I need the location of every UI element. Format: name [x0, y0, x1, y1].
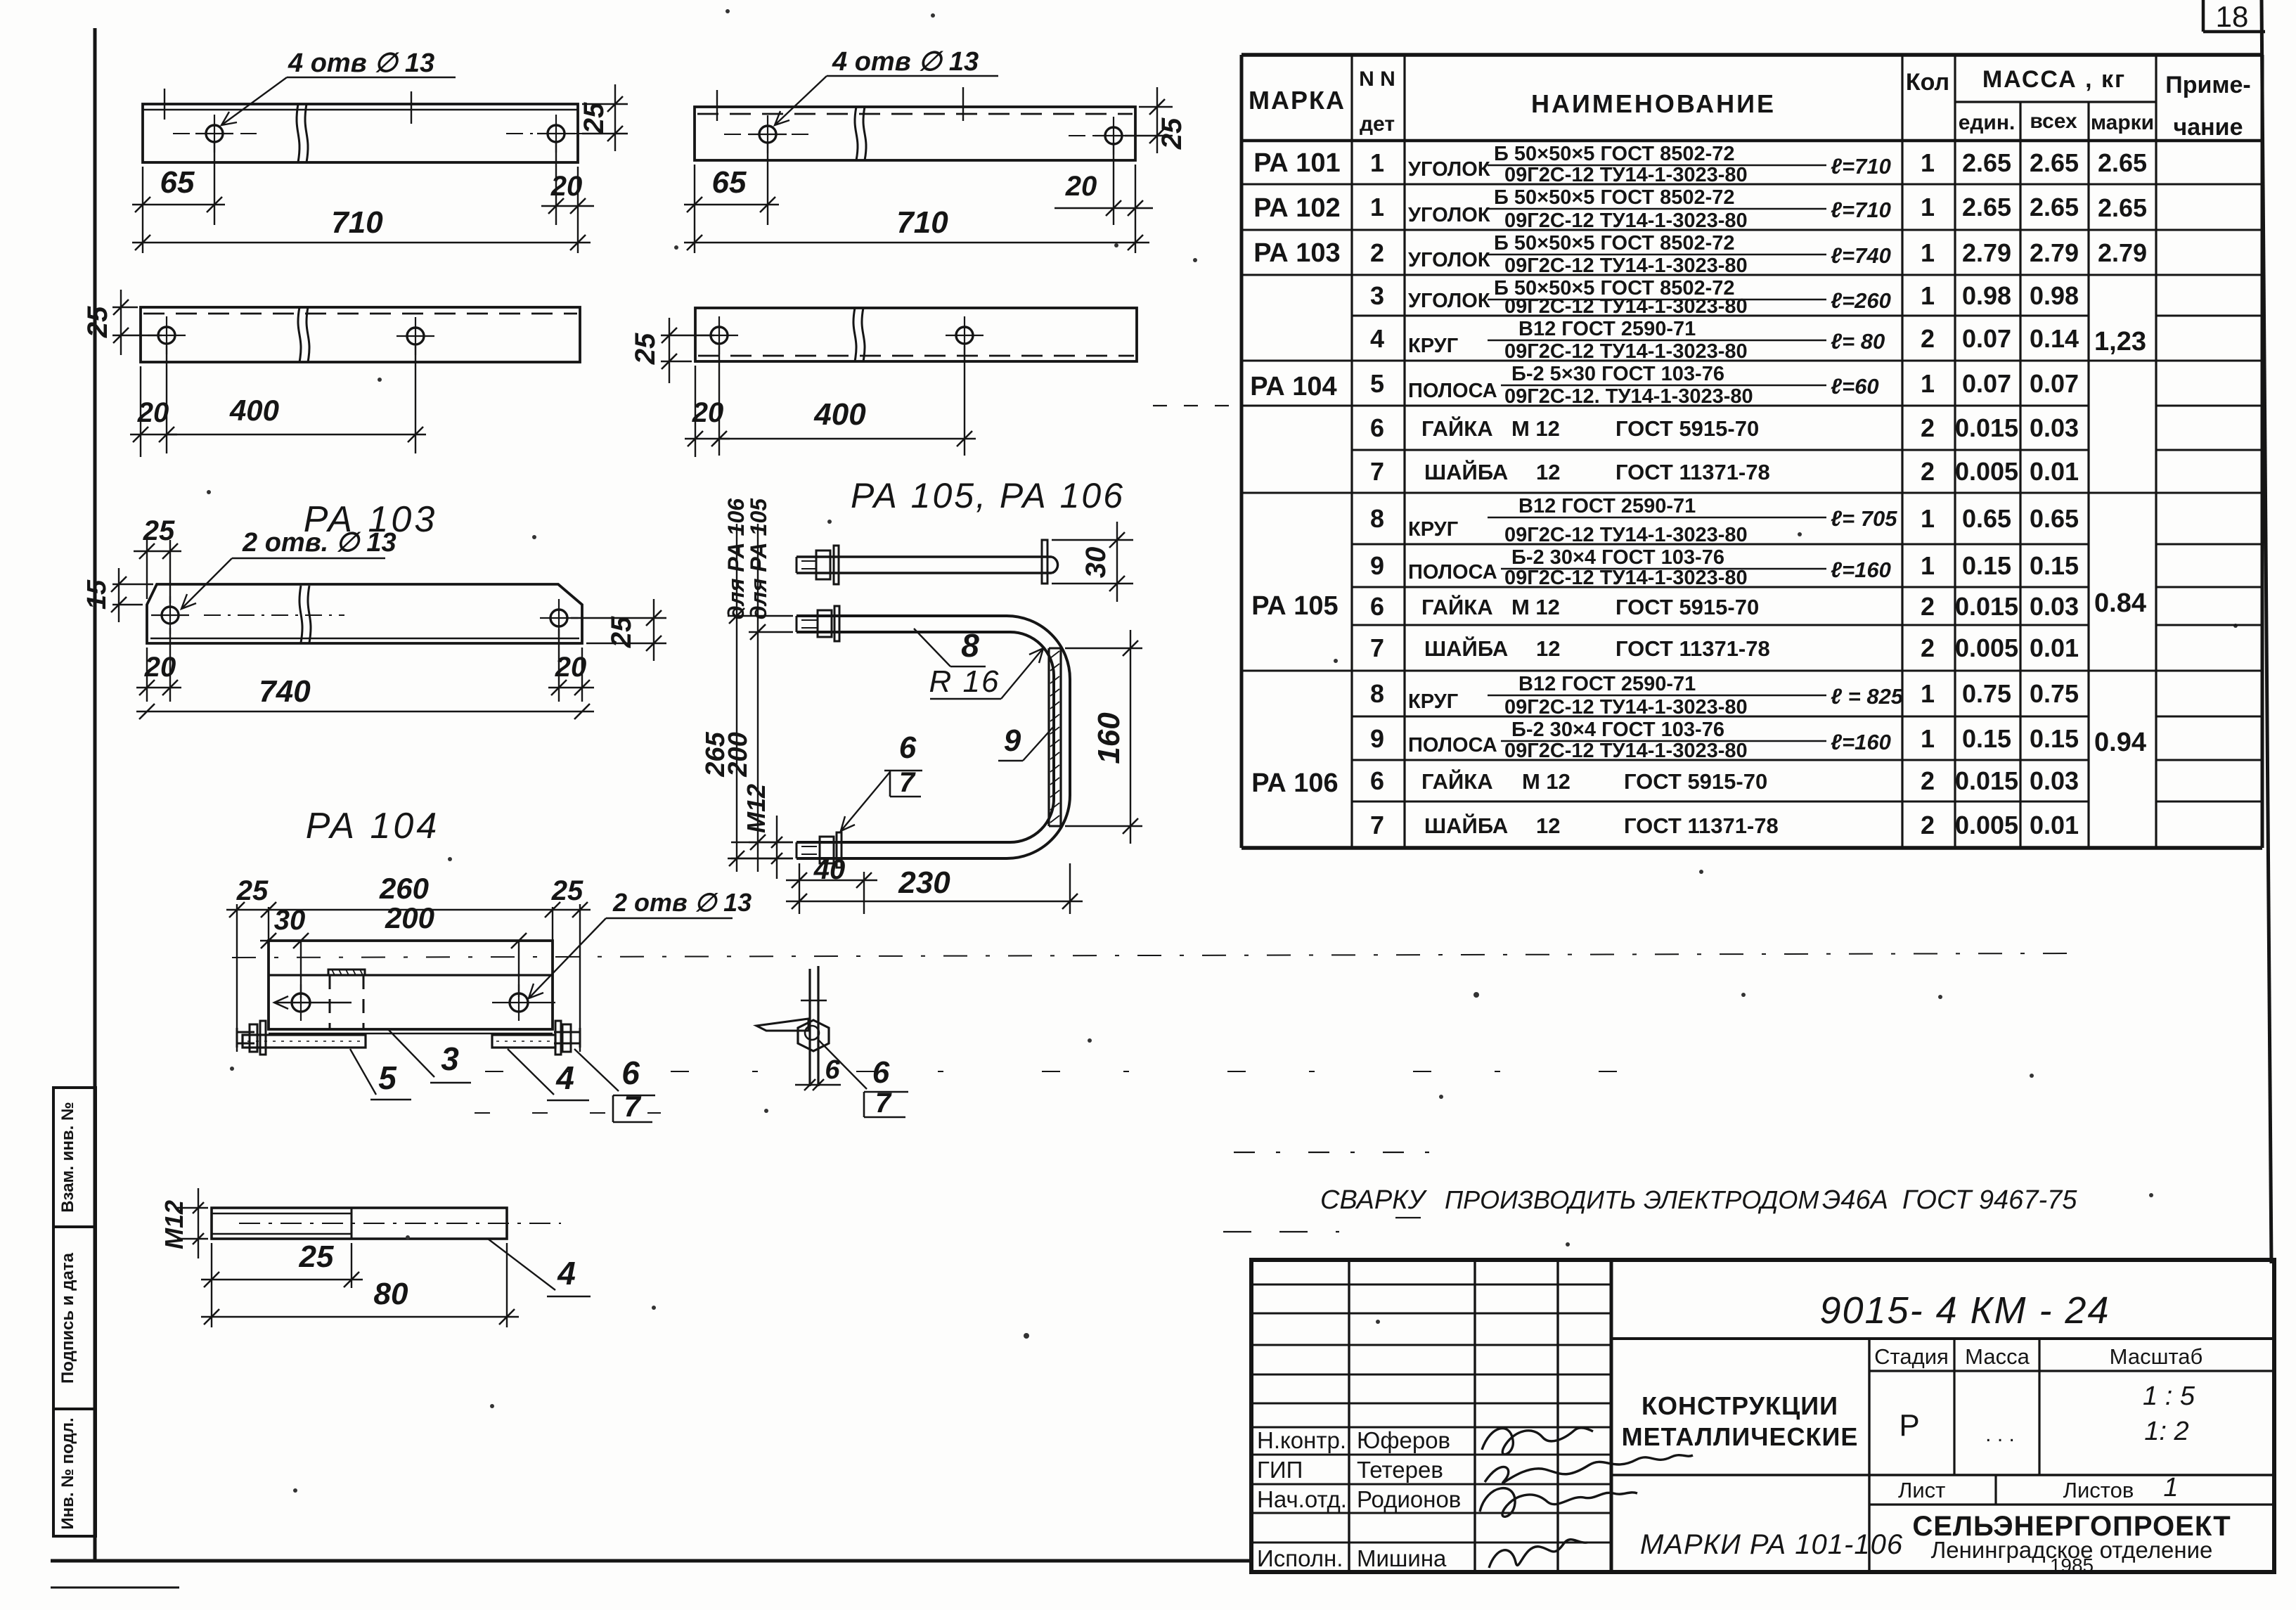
- РА101 hole centrelines: [173, 133, 598, 134]
- svg-text:0.07: 0.07: [2030, 369, 2079, 398]
- view G leader 6 over boxed 7: [818, 1040, 908, 1119]
- dimension M12 (rod diameter): [731, 784, 793, 879]
- svg-text:5: 5: [1370, 369, 1384, 398]
- U-bolt rod item 8 bent: [796, 616, 1070, 858]
- svg-text:1: 1: [1921, 504, 1935, 533]
- svg-text:Б 50×50×5 ГОСТ 8502-72: Б 50×50×5 ГОСТ 8502-72: [1494, 186, 1735, 209]
- svg-text:0.07: 0.07: [1962, 324, 2011, 353]
- svg-text:2.79: 2.79: [1962, 238, 2011, 267]
- svg-text:Листов: Листов: [2063, 1478, 2134, 1502]
- svg-text:Приме-: Приме-: [2165, 72, 2251, 98]
- svg-text:6: 6: [1370, 592, 1384, 621]
- svg-text:6: 6: [899, 730, 917, 765]
- svg-text:2.79: 2.79: [2030, 238, 2079, 267]
- svg-text:ШАЙБА: ШАЙБА: [1424, 813, 1508, 838]
- dimension 20 right (РА103): [548, 629, 594, 702]
- РА102 top edge ticks: [717, 87, 963, 121]
- hole D2: [946, 316, 983, 354]
- svg-text:для РА 105: для РА 105: [746, 498, 771, 619]
- svg-text:200: 200: [723, 732, 753, 777]
- svg-text:ℓ=710: ℓ=710: [1831, 154, 1891, 179]
- РА104 leader 5: [350, 1049, 411, 1100]
- svg-text:ГОСТ 5915-70: ГОСТ 5915-70: [1615, 416, 1759, 441]
- svg-text:Кол: Кол: [1906, 69, 1949, 96]
- svg-text:710: 710: [331, 205, 383, 240]
- svg-text:20: 20: [550, 171, 583, 202]
- label РА 103: [304, 499, 438, 540]
- scan dash artifact 2: [475, 1112, 661, 1114]
- svg-text:12: 12: [1536, 460, 1560, 484]
- sheet frame bottom border: [51, 1559, 1253, 1563]
- washer bar (item 8 right end): [1042, 540, 1047, 584]
- svg-text:1: 1: [1921, 238, 1935, 267]
- РА104 welded tab: [328, 970, 365, 975]
- РА103 hole 1: [151, 596, 189, 634]
- svg-text:ℓ= 705: ℓ= 705: [1831, 506, 1897, 531]
- svg-text:15: 15: [82, 579, 112, 610]
- svg-text:Исполн.: Исполн.: [1257, 1545, 1343, 1571]
- scan dash artifact 5: [1153, 405, 1239, 406]
- svg-text:30: 30: [274, 905, 306, 936]
- svg-text:КОНСТРУКЦИИ: КОНСТРУКЦИИ: [1642, 1391, 1838, 1420]
- РА104 hidden plate edges: [330, 975, 363, 1029]
- U-bolt leader 9: [998, 723, 1055, 761]
- svg-text:Лист: Лист: [1898, 1478, 1945, 1502]
- svg-text:18: 18: [2216, 0, 2249, 33]
- U-bolt bottom arm nut and washer: [801, 832, 841, 868]
- svg-text:2: 2: [1921, 811, 1935, 839]
- svg-text:2.65: 2.65: [2030, 193, 2079, 221]
- svg-text:0.01: 0.01: [2030, 457, 2079, 486]
- svg-text:Мишина: Мишина: [1357, 1545, 1447, 1571]
- svg-text:0.65: 0.65: [2030, 504, 2079, 533]
- svg-text:1: 1: [1921, 724, 1935, 753]
- svg-text:1: 1: [1921, 679, 1935, 708]
- svg-text:Р: Р: [1899, 1408, 1919, 1443]
- РА101 top edge ticks: [165, 89, 411, 124]
- dimension 20 (view C): [130, 346, 177, 457]
- svg-text:2.65: 2.65: [1962, 193, 2011, 221]
- svg-text:65: 65: [160, 165, 195, 200]
- svg-text:1: 1: [2163, 1473, 2178, 1502]
- title block stage value: [1899, 1408, 2015, 1446]
- svg-text:РА 102: РА 102: [1253, 193, 1340, 223]
- U-bolt leader 8: [914, 627, 986, 666]
- svg-text:65: 65: [712, 165, 747, 200]
- dimension 40 (U-bolt): [786, 854, 877, 914]
- svg-text:ЭЛЕКТРОДОМ: ЭЛЕКТРОДОМ: [1644, 1185, 1819, 1214]
- svg-text:09Г2С-12 ТУ14-1-3023-80: 09Г2С-12 ТУ14-1-3023-80: [1504, 210, 1748, 232]
- svg-text:Э46А: Э46А: [1822, 1185, 1888, 1215]
- svg-text:М 12: М 12: [1522, 769, 1571, 794]
- U-bolt leader 6 over boxed 7: [841, 730, 922, 831]
- svg-text:20: 20: [137, 397, 169, 428]
- dimension 25 (РА103 right): [571, 599, 666, 661]
- svg-text:40: 40: [813, 854, 846, 885]
- label РА 104: [306, 806, 440, 846]
- stud item 8 straight (РА106): [796, 546, 1058, 584]
- svg-text:ШАЙБА: ШАЙБА: [1424, 636, 1508, 661]
- dimension 30 (washer width): [1052, 522, 1133, 602]
- svg-text:0.005: 0.005: [1955, 811, 2018, 839]
- svg-text:3: 3: [1370, 281, 1384, 310]
- hole D1: [700, 316, 738, 354]
- svg-text:ПОЛОСА: ПОЛОСА: [1408, 561, 1497, 584]
- РА102 plate outline: [695, 107, 1135, 160]
- svg-text:6: 6: [1370, 413, 1384, 442]
- svg-text:30: 30: [1081, 547, 1111, 579]
- svg-text:230: 230: [898, 865, 950, 900]
- svg-text:РА 103: РА 103: [1253, 238, 1340, 268]
- svg-text:МАССА , кг: МАССА , кг: [1982, 66, 2126, 93]
- svg-text:0.015: 0.015: [1955, 592, 2018, 621]
- svg-text:ГОСТ 9467-75: ГОСТ 9467-75: [1902, 1185, 2077, 1215]
- title block grid: [1251, 1260, 2274, 1572]
- svg-text:Стадия: Стадия: [1874, 1344, 1949, 1369]
- svg-text:25: 25: [236, 875, 269, 906]
- svg-text:Б 50×50×5 ГОСТ 8502-72: Б 50×50×5 ГОСТ 8502-72: [1494, 143, 1735, 165]
- svg-text:09Г2С-12 ТУ14-1-3023-80: 09Г2С-12 ТУ14-1-3023-80: [1504, 524, 1748, 546]
- svg-text:КРУГ: КРУГ: [1408, 690, 1458, 713]
- svg-text:0.01: 0.01: [2030, 811, 2079, 839]
- dimension 710 (РА101): [132, 205, 591, 250]
- stamp box Подпись и дата: [53, 1227, 96, 1409]
- svg-text:МАРКА: МАРКА: [1249, 86, 1346, 115]
- svg-text:7: 7: [875, 1088, 892, 1119]
- dimension 25 (view C): [82, 290, 162, 355]
- title block name cell: [1611, 1339, 1869, 1572]
- svg-text:09Г2С-12 ТУ14-1-3023-80: 09Г2С-12 ТУ14-1-3023-80: [1504, 340, 1748, 363]
- svg-text:ПРОИЗВОДИТЬ: ПРОИЗВОДИТЬ: [1445, 1185, 1636, 1214]
- U-bolt leader R16: [929, 648, 1043, 699]
- sheet frame right border: [2262, 0, 2271, 1263]
- svg-text:1 : 5: 1 : 5: [2143, 1382, 2195, 1411]
- svg-text:Тетерев: Тетерев: [1357, 1457, 1443, 1483]
- svg-text:4: 4: [557, 1255, 576, 1292]
- svg-text:25: 25: [606, 616, 637, 648]
- U-bolt top arm nut and washer: [801, 606, 839, 641]
- svg-text:РА 104: РА 104: [1250, 372, 1336, 401]
- svg-text:0.94: 0.94: [2094, 728, 2146, 757]
- svg-text:0.65: 0.65: [1962, 504, 2011, 533]
- title block sheet row: [1869, 1473, 2274, 1505]
- svg-text:ГОСТ 5915-70: ГОСТ 5915-70: [1615, 595, 1759, 619]
- РА104 leader 6 over boxed 7: [574, 1049, 655, 1123]
- svg-text:25: 25: [551, 875, 583, 906]
- svg-text:3: 3: [441, 1041, 459, 1077]
- svg-text:0.15: 0.15: [1962, 724, 2011, 753]
- svg-text:0.15: 0.15: [1962, 551, 2011, 580]
- РА102 leader 4 отв ⌀13: [775, 47, 998, 125]
- dimension 25 (РА102): [1125, 87, 1187, 153]
- svg-text:2.79: 2.79: [2098, 238, 2147, 267]
- svg-text:400: 400: [813, 397, 866, 432]
- svg-text:4 отв ∅ 13: 4 отв ∅ 13: [288, 49, 434, 78]
- svg-text:ℓ = 825: ℓ = 825: [1831, 684, 1904, 709]
- svg-text:1: 2: 1: 2: [2144, 1417, 2188, 1446]
- svg-text:МАРКИ РА 101-106: МАРКИ РА 101-106: [1640, 1529, 1903, 1560]
- svg-text:7: 7: [1370, 811, 1384, 839]
- svg-text:КРУГ: КРУГ: [1408, 335, 1458, 357]
- svg-text:Нач.отд.: Нач.отд.: [1257, 1486, 1347, 1512]
- svg-text:2.65: 2.65: [1962, 148, 2011, 177]
- dimension 20 (РА102): [1055, 142, 1153, 253]
- svg-text:20: 20: [555, 652, 587, 683]
- svg-text:7: 7: [1370, 633, 1384, 662]
- svg-text:М12: М12: [160, 1200, 188, 1249]
- svg-text:всех: всех: [2030, 110, 2077, 133]
- svg-text:0.98: 0.98: [1962, 281, 2011, 310]
- weld note: [1320, 1185, 2077, 1218]
- svg-text:един.: един.: [1959, 111, 2016, 134]
- svg-text:0.75: 0.75: [2030, 679, 2079, 708]
- svg-text:6: 6: [872, 1055, 890, 1090]
- stud centreline: [239, 1223, 561, 1224]
- svg-text:0.005: 0.005: [1955, 457, 2018, 486]
- svg-text:ГОСТ 5915-70: ГОСТ 5915-70: [1624, 769, 1767, 794]
- dimension 740 (РА103): [136, 674, 594, 719]
- dimension 20 (РА101): [541, 141, 594, 253]
- РА102 hidden fold line: [697, 113, 1133, 115]
- svg-text:М12: М12: [742, 784, 770, 833]
- svg-text:УГОЛОК: УГОЛОК: [1408, 158, 1490, 181]
- title block organisation: [1912, 1511, 2231, 1576]
- svg-text:Б-2 30×4 ГОСТ 103-76: Б-2 30×4 ГОСТ 103-76: [1511, 546, 1724, 569]
- svg-text:160: 160: [1092, 712, 1126, 764]
- dimension 710 (РА102): [684, 205, 1149, 250]
- hole C1: [148, 316, 186, 354]
- svg-text:2: 2: [1921, 324, 1935, 353]
- svg-text:1,23: 1,23: [2094, 327, 2146, 356]
- strip hidden line (view C): [143, 313, 577, 315]
- svg-text:710: 710: [896, 205, 948, 240]
- svg-text:УГОЛОК: УГОЛОК: [1408, 204, 1490, 226]
- svg-text:Б-2 30×4 ГОСТ 103-76: Б-2 30×4 ГОСТ 103-76: [1511, 719, 1724, 741]
- svg-text:260: 260: [379, 872, 429, 905]
- РА103 hole1 centreline: [204, 614, 344, 616]
- svg-text:Подпись и дата: Подпись и дата: [58, 1252, 77, 1384]
- hole C2: [396, 317, 434, 355]
- svg-text:ШАЙБА: ШАЙБА: [1424, 459, 1508, 484]
- svg-text:0.15: 0.15: [2030, 551, 2079, 580]
- svg-text:80: 80: [374, 1277, 408, 1311]
- svg-text:4 отв ∅ 13: 4 отв ∅ 13: [832, 47, 979, 77]
- svg-text:200: 200: [385, 901, 434, 934]
- svg-text:УГОЛОК: УГОЛОК: [1408, 249, 1490, 271]
- svg-text:2.65: 2.65: [2030, 148, 2079, 177]
- svg-text:09Г2С-12 ТУ14-1-3023-80: 09Г2С-12 ТУ14-1-3023-80: [1504, 696, 1748, 719]
- svg-text:Родионов: Родионов: [1357, 1486, 1461, 1512]
- svg-text:9: 9: [1004, 723, 1021, 758]
- dimension 25 (РА101): [579, 84, 628, 151]
- svg-text:9: 9: [1370, 724, 1384, 753]
- РА101 strip lower view outline: [141, 307, 580, 362]
- РА104 leader 4: [508, 1049, 589, 1100]
- svg-text:ГАЙКА: ГАЙКА: [1421, 594, 1493, 619]
- svg-text:ℓ=260: ℓ=260: [1831, 288, 1891, 313]
- parts table header: [1249, 66, 2251, 141]
- svg-text:ГОСТ 11371-78: ГОСТ 11371-78: [1624, 813, 1779, 838]
- svg-text:12: 12: [1536, 813, 1560, 838]
- svg-text:9: 9: [1370, 551, 1384, 580]
- svg-text:1985: 1985: [2050, 1554, 2094, 1576]
- РА101 hole 1: [195, 115, 233, 153]
- title block drawing number cell: [1611, 1289, 2274, 1339]
- svg-text:Б 50×50×5 ГОСТ 8502-72: Б 50×50×5 ГОСТ 8502-72: [1494, 232, 1735, 255]
- svg-text:СВАРКУ: СВАРКУ: [1320, 1185, 1428, 1215]
- РА103 plate outline: [147, 584, 582, 643]
- svg-text:2 отв. ∅ 13: 2 отв. ∅ 13: [242, 528, 396, 558]
- dimension 400 (view D): [719, 346, 976, 456]
- dimension M12 (stud): [160, 1188, 208, 1258]
- svg-text:ГИП: ГИП: [1257, 1457, 1303, 1483]
- svg-text:1: 1: [1921, 369, 1935, 398]
- svg-text:ГАЙКА: ГАЙКА: [1421, 768, 1493, 794]
- РА104 leader 2 отв ⌀13: [529, 888, 752, 998]
- parts table content: [1250, 143, 2147, 839]
- РА104 angle front face: [269, 941, 553, 1033]
- svg-text:09Г2С-12 ТУ14-1-3023-80: 09Г2С-12 ТУ14-1-3023-80: [1504, 567, 1748, 589]
- РА104 leader 3: [388, 1029, 471, 1083]
- stamp box Взам.инв.№: [53, 1088, 96, 1227]
- svg-text:ℓ=160: ℓ=160: [1831, 558, 1891, 582]
- svg-text:Масштаб: Масштаб: [2110, 1344, 2203, 1369]
- svg-text:1: 1: [1370, 193, 1384, 221]
- svg-text:2: 2: [1921, 766, 1935, 795]
- svg-text:0.015: 0.015: [1955, 413, 2018, 442]
- dimension 25 (РА103 top): [134, 515, 181, 603]
- svg-text:ℓ= 80: ℓ= 80: [1831, 329, 1885, 354]
- РА104 hole 1: [274, 984, 352, 1021]
- svg-text:2.65: 2.65: [2098, 193, 2147, 222]
- stud item 4 (М12 x 80): [212, 1208, 507, 1239]
- svg-text:7: 7: [1370, 457, 1384, 486]
- РА104 bottom strip left: [243, 1035, 366, 1048]
- svg-text:2: 2: [1921, 592, 1935, 621]
- svg-text:КРУГ: КРУГ: [1408, 518, 1458, 541]
- dimension 20 left (РА103): [136, 628, 181, 702]
- svg-text:0.005: 0.005: [1955, 633, 2018, 662]
- dimension 80 (stud): [201, 1243, 519, 1327]
- svg-text:09Г2С-12 ТУ14-1-3023-80: 09Г2С-12 ТУ14-1-3023-80: [1504, 740, 1748, 762]
- svg-text:4: 4: [555, 1060, 574, 1096]
- svg-text:РА 105, РА 106: РА 105, РА 106: [851, 476, 1125, 515]
- dimension 25-260-25 (РА104): [226, 872, 591, 941]
- svg-text:2 отв ∅ 13: 2 отв ∅ 13: [612, 888, 752, 917]
- svg-text:7: 7: [624, 1090, 641, 1123]
- svg-text:20: 20: [1065, 171, 1097, 202]
- svg-text:УГОЛОК: УГОЛОК: [1408, 290, 1490, 312]
- svg-text:25: 25: [579, 102, 610, 134]
- stud rod (view G): [801, 966, 827, 1086]
- svg-text:РА 104: РА 104: [306, 806, 440, 846]
- svg-text:2: 2: [1921, 633, 1935, 662]
- РА101 plate outline: [143, 104, 578, 162]
- svg-text:0.84: 0.84: [2094, 588, 2146, 618]
- stamp box Инв.№ подл.: [53, 1409, 96, 1536]
- dimension 65 (РА102): [684, 142, 779, 253]
- scan underline bottom-left: [51, 1587, 179, 1589]
- svg-text:6: 6: [621, 1055, 640, 1091]
- svg-text:0.14: 0.14: [2030, 324, 2079, 353]
- label РА 105, РА 106: [851, 476, 1125, 515]
- svg-text:2: 2: [1370, 238, 1384, 267]
- svg-text:Юферов: Юферов: [1357, 1427, 1450, 1453]
- svg-text:. . .: . . .: [1985, 1423, 2015, 1446]
- svg-text:0.75: 0.75: [1962, 679, 2011, 708]
- dimension 6 (view G): [795, 1055, 841, 1090]
- svg-text:0.15: 0.15: [2030, 724, 2079, 753]
- svg-text:2: 2: [1921, 457, 1935, 486]
- svg-text:0.07: 0.07: [1962, 369, 2011, 398]
- svg-text:6: 6: [1370, 766, 1384, 795]
- dimension 400 (view C): [167, 346, 426, 453]
- dimension 15 (РА103): [82, 568, 153, 622]
- РА104 centreline / scan dash artifact: [232, 953, 2074, 958]
- svg-text:8: 8: [1370, 504, 1384, 533]
- svg-text:2: 2: [1921, 413, 1935, 442]
- scan dash artifact 1: [485, 1071, 1617, 1072]
- svg-text:1: 1: [1370, 148, 1384, 177]
- svg-text:Взам. инв. №: Взам. инв. №: [58, 1102, 77, 1212]
- svg-text:ГАЙКА: ГАЙКА: [1421, 416, 1493, 441]
- svg-text:20: 20: [692, 397, 724, 428]
- svg-text:дет: дет: [1360, 112, 1395, 136]
- svg-text:М 12: М 12: [1511, 595, 1560, 619]
- РА101 hole 2: [537, 115, 575, 153]
- title block scale values: [2143, 1382, 2195, 1446]
- svg-text:R 16: R 16: [929, 664, 1000, 699]
- svg-text:1: 1: [1921, 281, 1935, 310]
- dimension 230 (U-bolt): [786, 863, 1083, 914]
- РА104 outer extension lines: [237, 904, 580, 1052]
- svg-text:4: 4: [1370, 324, 1384, 353]
- svg-text:М 12: М 12: [1511, 416, 1560, 441]
- РА103 hole 2: [540, 599, 578, 637]
- svg-text:25: 25: [630, 333, 661, 365]
- welded strip item 9: [1049, 648, 1061, 826]
- svg-text:2.65: 2.65: [2098, 148, 2147, 177]
- svg-text:0.03: 0.03: [2030, 413, 2079, 442]
- svg-text:для РА 106: для РА 106: [723, 498, 749, 619]
- dimension 65 (РА101): [132, 141, 225, 253]
- svg-text:12: 12: [1536, 636, 1560, 661]
- dimension 265 line with label для РА 106: [701, 498, 793, 872]
- svg-text:0.01: 0.01: [2030, 633, 2079, 662]
- svg-text:ℓ=60: ℓ=60: [1831, 374, 1879, 399]
- dimension 160 (strip): [1065, 630, 1142, 844]
- svg-text:25: 25: [299, 1239, 334, 1274]
- РА104 bottom strip right: [492, 1035, 555, 1048]
- svg-text:ℓ=710: ℓ=710: [1831, 198, 1891, 222]
- sheet frame left border: [93, 28, 97, 1561]
- svg-text:0.015: 0.015: [1955, 766, 2018, 795]
- scan dash artifact 3: [1234, 1152, 1448, 1153]
- svg-text:ГОСТ 11371-78: ГОСТ 11371-78: [1615, 460, 1770, 484]
- РА102 hole centrelines: [724, 134, 1159, 136]
- svg-text:7: 7: [899, 767, 916, 798]
- svg-text:Б-2 5×30 ГОСТ 103-76: Б-2 5×30 ГОСТ 103-76: [1511, 363, 1724, 385]
- washer edge view (view G): [756, 1019, 808, 1031]
- svg-text:В12 ГОСТ 2590-71: В12 ГОСТ 2590-71: [1518, 495, 1696, 517]
- svg-text:РА 106: РА 106: [1251, 768, 1338, 798]
- РА104 hole 2: [492, 984, 555, 1021]
- РА104 right bolt: [554, 1021, 580, 1055]
- svg-text:Инв. № подл.: Инв. № подл.: [58, 1417, 77, 1529]
- hex nut (view G): [798, 1020, 829, 1051]
- sheet number box 18: [2203, 0, 2265, 33]
- title block марки cell: [1640, 1529, 1903, 1560]
